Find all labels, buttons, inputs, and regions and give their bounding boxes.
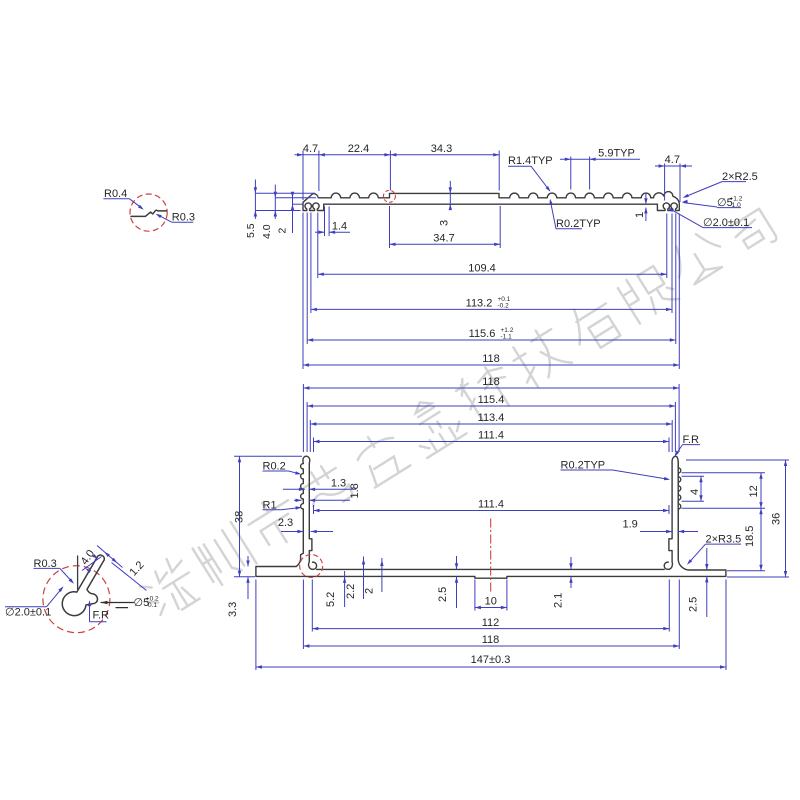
svg-text:147±0.3: 147±0.3 [471,654,511,666]
dim 3 pad thickness [449,181,451,209]
dim 1.3 [283,488,305,490]
svg-text:1.3: 1.3 [331,478,346,490]
detail view A circle (R0.4 R0.3 seam) [130,194,167,231]
svg-text:1: 1 [634,212,646,218]
svg-text:38: 38 [234,511,246,523]
dim 111.4 inner [313,505,315,514]
lower dim rows 109.4 113.2 115.6 118 [317,213,319,279]
ext lines above base [302,384,304,452]
svg-text:111.4: 111.4 [478,430,504,442]
svg-text:34.7: 34.7 [433,233,454,245]
svg-text:115.4: 115.4 [478,394,505,406]
dim 4 right ribs [682,475,705,477]
svg-text:118: 118 [482,634,500,646]
svg-text:111.4: 111.4 [478,499,504,511]
dim 115.4 [307,405,675,407]
dim 111.4 upper [314,441,670,443]
svg-text:36: 36 [771,513,783,525]
svg-text:2: 2 [364,588,376,594]
svg-text:2: 2 [277,228,289,234]
svg-text:5.9TYP: 5.9TYP [598,148,635,160]
dim 12 right [682,472,766,474]
detail phi5 leader black [101,602,134,604]
extension lines above top profile [302,151,304,201]
top cover profile outline [303,192,679,211]
svg-text:4.0: 4.0 [261,224,273,239]
dim 10 groove [474,580,476,611]
svg-text:34.3: 34.3 [431,143,452,155]
svg-text:12: 12 [748,485,760,497]
svg-text:118: 118 [482,353,500,365]
dim 4.7 right [664,164,666,201]
svg-text:10: 10 [485,596,497,608]
svg-text:R1.4TYP: R1.4TYP [508,155,553,167]
svg-text:3: 3 [439,220,451,226]
svg-text:113.4: 113.4 [478,412,505,424]
dim 5.9TYP [570,157,572,190]
detail dim 4.0 rotated [82,557,102,571]
svg-text:4.7: 4.7 [303,143,318,155]
dim 1.9 [640,531,672,533]
svg-text:4: 4 [689,489,701,495]
svg-text:2.5: 2.5 [688,597,700,612]
svg-text:-1.1: -1.1 [501,333,513,340]
svg-text:5.5: 5.5 [245,223,257,238]
svg-text:5.2: 5.2 [325,592,337,607]
dim 4.7 / 22.4 / 34.3 row [295,154,500,156]
detail screw boss shape [77,556,79,589]
svg-text:115.6: 115.6 [469,328,496,340]
svg-text:1.9: 1.9 [623,519,638,531]
dim 118 top of base [303,387,679,389]
svg-text:2.1: 2.1 [553,593,565,608]
dim 36 right [686,459,789,461]
svg-text:1.4: 1.4 [332,220,347,232]
dim 38 left [234,455,302,457]
svg-text:22.4: 22.4 [348,143,369,155]
svg-text:∅2.0±0.1: ∅2.0±0.1 [5,607,51,619]
red circle at left omega [300,555,323,578]
svg-text:2.5: 2.5 [437,587,449,602]
svg-text:3.3: 3.3 [227,602,239,617]
svg-text:109.4: 109.4 [468,262,496,274]
dim 34.7 [389,206,391,248]
svg-text:112: 112 [482,617,500,629]
left wall outer serrations [301,464,304,513]
svg-text:113.2: 113.2 [466,298,493,310]
detail dim 1.2 rotated [97,546,123,568]
dim 2.3 [281,531,303,533]
svg-text:1.8: 1.8 [349,483,361,498]
dim 1.4 left small [324,207,326,237]
svg-text:18.5: 18.5 [744,526,756,547]
dim 1 right small [645,193,647,203]
detail seam lines [131,210,167,216]
small vertical dims under floor [247,556,249,567]
dim 1.8 rotated [294,499,302,501]
svg-text:F.R: F.R [93,610,110,622]
base channel profile outline [256,456,726,578]
right wall outer serrations [678,462,681,559]
svg-text:-0.2: -0.2 [498,303,510,310]
detail view B circle (screw boss) [43,566,110,633]
svg-text:2.3: 2.3 [278,517,293,529]
dim 18.5 right [727,570,765,572]
svg-text:-0.1: -0.1 [146,602,158,609]
svg-text:118: 118 [482,376,500,388]
red centerline [490,519,492,592]
svg-text:4.7: 4.7 [665,154,680,166]
red detail circle at pad step [383,190,395,202]
svg-text:2.2: 2.2 [345,584,357,599]
bottom dim rows 112 118 147 [311,580,313,632]
dim 113.4 [310,423,672,425]
watermark diagonal gray company text [133,209,778,623]
left stack dims 5.5 4.0 2 [255,192,315,194]
